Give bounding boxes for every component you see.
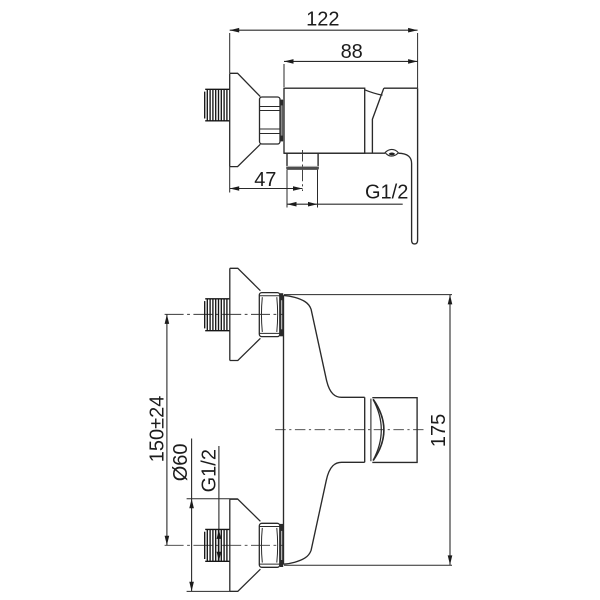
handle blade right edge + cover right edge (398, 88, 417, 244)
bottom union washer (281, 526, 283, 565)
top union hex nut (259, 293, 280, 337)
175 extension bottom (284, 564, 452, 566)
svg-text:47: 47 (254, 169, 276, 191)
faucet body (top view) (284, 88, 365, 153)
dim 175 line (449, 295, 451, 565)
svg-text:G1/2: G1/2 (365, 182, 408, 204)
escutcheon cone (top view) (230, 73, 261, 166)
bottom union threaded nipple (205, 529, 230, 561)
body bottom edge (284, 152, 385, 154)
cone transition to cover (365, 90, 383, 95)
dome back edge (370, 399, 372, 462)
175 extension top (284, 294, 452, 296)
outlet G1/2 arrows (287, 202, 318, 207)
outlet center line (302, 150, 304, 191)
rotated texts bottom view (146, 396, 450, 493)
Ø60 extension top (cone top edge) (187, 498, 238, 500)
center line top union (165, 313, 284, 315)
threaded nipple (top view) (205, 89, 230, 121)
body outline (front view) (284, 295, 365, 564)
handle rectangle (front view) (372, 398, 417, 463)
dim G1/2 line (bottom view) (218, 446, 220, 561)
dim 47 line (230, 188, 303, 190)
Ø60 extension bottom (cone bottom edge) (187, 590, 238, 592)
center line bottom union (165, 544, 284, 546)
dim 122 arrows (230, 28, 418, 33)
svg-text:175: 175 (428, 414, 450, 447)
svg-text:122: 122 (306, 8, 339, 30)
dome arc inner (373, 399, 381, 460)
outlet spout (top view) (287, 153, 318, 166)
dim 47 arrows (230, 186, 303, 191)
47 extension (cone left edge down) (229, 167, 231, 193)
top union threaded nipple (205, 299, 230, 331)
dome arc outer (373, 399, 384, 460)
screw oval (385, 149, 398, 156)
dim 88 arrows (284, 59, 418, 64)
top union washer (281, 296, 283, 335)
svg-text:150±24: 150±24 (146, 396, 168, 463)
dim 122 line (230, 30, 418, 88)
center line handle axis (275, 429, 423, 431)
svg-text:88: 88 (341, 41, 363, 63)
top union cone (230, 268, 261, 360)
svg-text:G1/2: G1/2 (199, 449, 221, 492)
dim 150±24 line (166, 314, 168, 545)
bottom union cone (230, 499, 261, 591)
bottom union hex nut (259, 523, 280, 567)
dim 88 line (284, 61, 418, 87)
svg-text:Ø60: Ø60 (170, 443, 192, 481)
texts top view (254, 8, 408, 203)
dim Ø60 line (191, 439, 193, 592)
escutcheon plate edge (front view) (364, 397, 366, 462)
washer rings (top view) (281, 100, 283, 141)
hex nut (top view) (260, 97, 281, 144)
cartridge cover (top view) (372, 88, 417, 153)
outlet G1/2 dim + leader (287, 170, 403, 208)
